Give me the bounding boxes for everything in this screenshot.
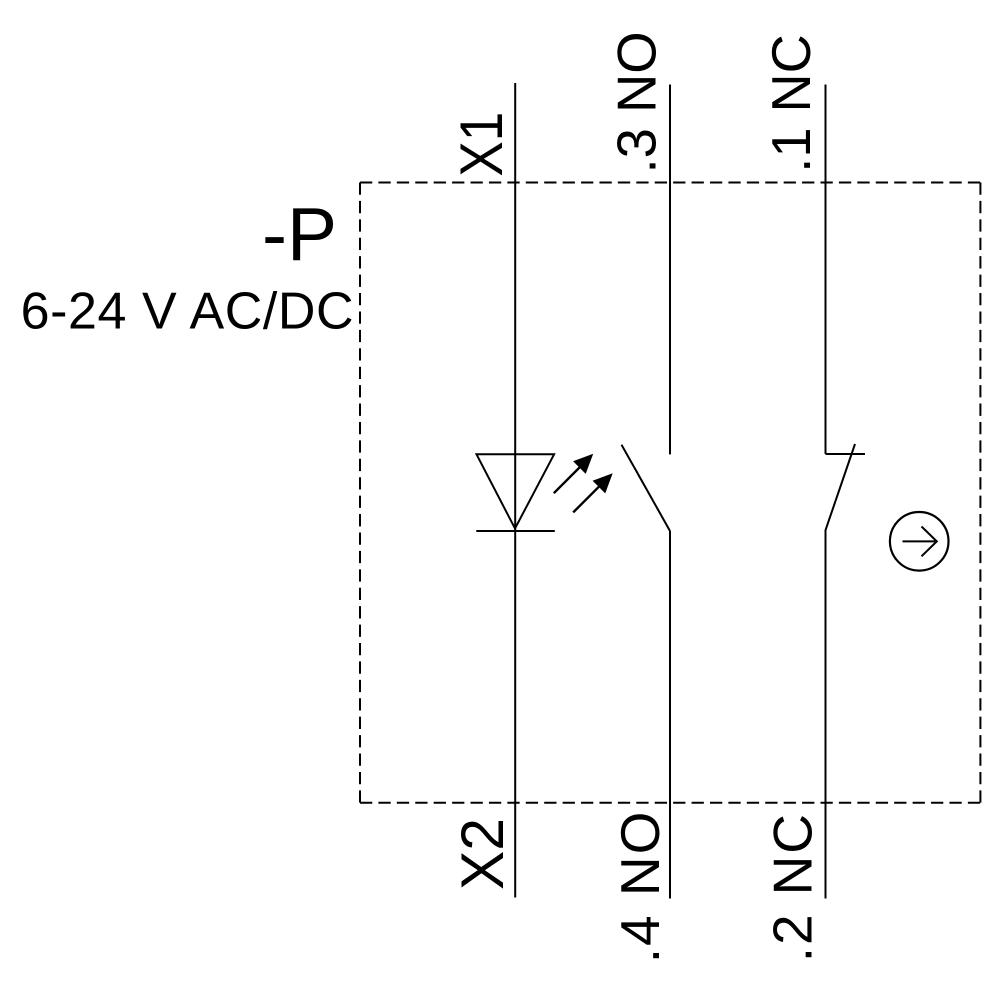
LED light arrow 1 bbox=[554, 454, 593, 493]
actuator symbol circle bbox=[890, 512, 949, 571]
svg-text:X2: X2 bbox=[449, 818, 516, 890]
svg-text:X1: X1 bbox=[448, 112, 515, 177]
svg-text:.2 NC: .2 NC bbox=[762, 814, 824, 962]
component outline (dashed enclosure) bbox=[360, 183, 980, 803]
LED light arrow 2 bbox=[573, 473, 613, 512]
svg-text:-P: -P bbox=[262, 192, 337, 276]
wire .4 lower segment bbox=[669, 531, 671, 899]
wire X1-X2 (lamp branch) bbox=[514, 83, 516, 898]
wire .1 upper segment bbox=[825, 85, 827, 454]
actuator arrow bbox=[903, 527, 937, 557]
NO contact moving blade bbox=[622, 445, 671, 531]
NC contact seat tick bbox=[826, 453, 866, 455]
wire .2 lower segment bbox=[825, 530, 827, 899]
NC contact moving blade bbox=[826, 444, 856, 530]
svg-text:.4 NO: .4 NO bbox=[609, 812, 671, 964]
svg-text:.1 NC: .1 NC bbox=[760, 34, 822, 172]
lamp LED symbol bbox=[476, 454, 555, 531]
svg-text:6-24 V AC/DC: 6-24 V AC/DC bbox=[21, 283, 354, 341]
wire .3 upper segment bbox=[669, 85, 671, 455]
svg-text:.3 NO: .3 NO bbox=[606, 31, 668, 173]
